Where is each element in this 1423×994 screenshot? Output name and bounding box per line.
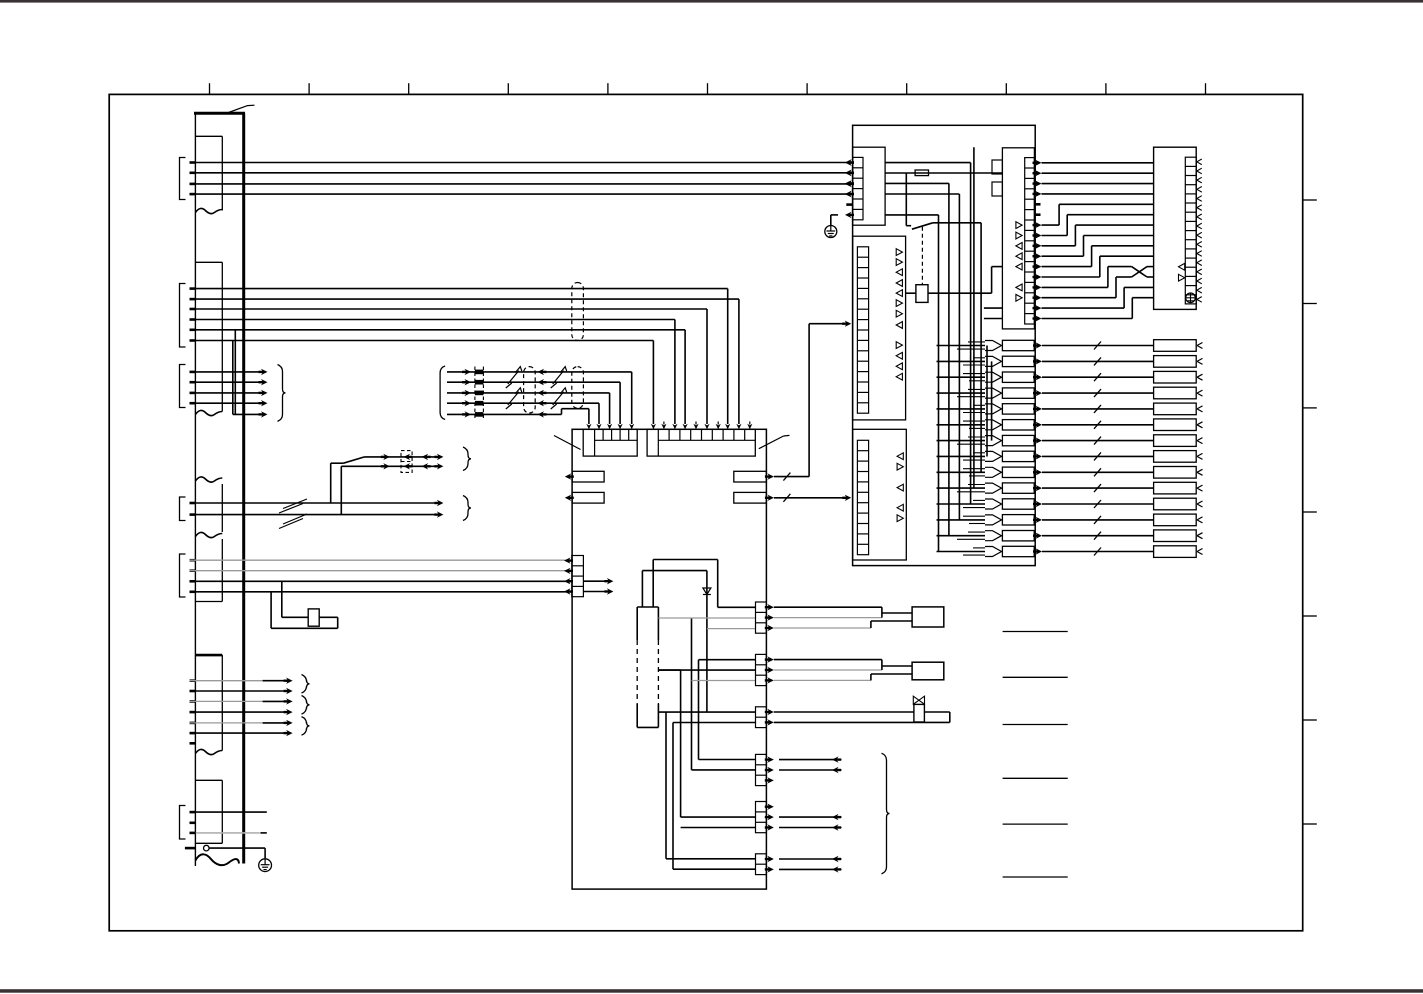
drawing frame border xyxy=(109,94,1303,930)
switch pair inline arrows xyxy=(381,454,431,470)
IC feed verticals xyxy=(642,560,653,608)
cable marker ellipse group2 xyxy=(572,283,584,341)
motor M1 plug xyxy=(912,607,944,627)
group7 pin stubs xyxy=(190,812,197,833)
PSU wire r3 xyxy=(885,182,949,184)
group6 wires xyxy=(190,678,293,737)
left bar section 1 box xyxy=(195,136,222,210)
PSU output left tabs xyxy=(992,160,1002,196)
group1 wires to power connector xyxy=(190,159,855,197)
left harness bar leader xyxy=(229,105,255,112)
interior vertical vd xyxy=(691,618,693,770)
PSU input arrows xyxy=(845,159,854,218)
comb connector CN2b outline xyxy=(647,429,755,456)
left bar section 3 edge xyxy=(221,484,223,532)
bracket group4 xyxy=(180,497,186,521)
PCB left port box2 xyxy=(572,492,604,503)
PSU input connector box xyxy=(853,147,886,225)
thermistor body xyxy=(308,609,319,626)
interior vertical v718 xyxy=(717,560,719,608)
left bar break wave 3 xyxy=(195,477,222,482)
comb CN2b teeth xyxy=(658,429,755,456)
PSU output direction marks xyxy=(1016,222,1022,302)
load connector box xyxy=(1154,147,1197,309)
PCB left port box1 xyxy=(572,471,604,482)
interior vertical va xyxy=(665,712,667,859)
PCB output stack 3 xyxy=(756,707,767,728)
load plugs right column xyxy=(1154,340,1203,558)
PSU IC box lower xyxy=(853,429,907,560)
PSU internal bus wires xyxy=(939,147,992,551)
frame ground wire xyxy=(209,848,265,858)
fuse F1 wire xyxy=(885,170,1002,176)
group2 pin stubs xyxy=(190,289,197,341)
interior vertical ve xyxy=(699,660,756,760)
closing bracket sensors xyxy=(882,753,890,874)
PSU wire r1 xyxy=(885,162,971,164)
group2 branch pair down xyxy=(233,330,236,415)
main PCB outline xyxy=(572,429,766,889)
group3 wires segment A xyxy=(190,369,268,418)
left bar section 5 box xyxy=(195,655,222,750)
frame right scale ticks xyxy=(1303,200,1317,824)
left bar break wave 2 xyxy=(195,410,222,415)
left bar section 4 box xyxy=(195,539,222,602)
sensor feedback wires xyxy=(779,756,842,872)
closing bracket switch pair xyxy=(463,447,471,471)
interlock switch pair xyxy=(331,454,444,515)
PCB output stack 5 xyxy=(756,802,767,833)
relay coil K1 xyxy=(906,267,1003,303)
left bar section 6 box xyxy=(195,780,222,843)
group5 pin stubs xyxy=(190,560,197,592)
comb CN2a teeth xyxy=(595,429,638,456)
inline connector dashed group3 xyxy=(475,367,484,420)
group3 wires segment B to comb xyxy=(447,372,634,429)
closing brackets group6 xyxy=(302,675,310,736)
bracket group3 near bar xyxy=(180,365,186,408)
thermistor branch wires xyxy=(271,581,338,628)
PSU wire r6 xyxy=(885,214,938,216)
PSU output connector box xyxy=(1002,148,1034,329)
interior vertical vc xyxy=(658,670,680,817)
bracket group5 xyxy=(180,554,186,597)
left bar section 2 box xyxy=(195,262,222,411)
mid connector feed wires xyxy=(984,308,1003,318)
solenoid SL1 body xyxy=(914,704,925,722)
PSU IC box lower cells xyxy=(857,440,868,554)
wire PCB to PSU upper xyxy=(765,321,851,481)
PSU ground wire xyxy=(831,215,838,225)
group4 long wires xyxy=(190,499,444,529)
driver output wires xyxy=(1033,342,1154,556)
PSU to load harness wires xyxy=(1042,163,1154,319)
frame ground terminal circle xyxy=(204,845,210,851)
IC block dashed xyxy=(637,607,658,727)
inline connector dashed group4 xyxy=(401,451,412,473)
protective earth symbol PSU xyxy=(825,226,837,238)
comb leader left xyxy=(554,436,581,450)
motor M2 wires xyxy=(774,660,912,681)
load connector pin marks xyxy=(1197,159,1202,302)
comb leader right xyxy=(759,435,790,448)
PSU block outline xyxy=(853,125,1036,565)
left harness bar outline xyxy=(194,113,245,866)
motor M2 plug xyxy=(912,662,944,680)
group5 black wires xyxy=(190,581,572,592)
PCB output stack 6 xyxy=(756,854,767,875)
wire PCB to PSU lower xyxy=(765,494,851,502)
interior vertical vb xyxy=(672,723,674,870)
left bar break wave 1 xyxy=(195,208,222,213)
comb unused pin stubs xyxy=(661,422,752,430)
PCB input stack CN5 xyxy=(572,556,584,597)
component label rules xyxy=(1003,632,1068,878)
load connector direction marks xyxy=(1179,263,1185,281)
twist marks group3 set1 xyxy=(506,367,522,409)
relay link dashed xyxy=(921,227,923,285)
group7 wire 1 xyxy=(190,811,267,813)
page top rule xyxy=(0,0,1423,3)
cable marker ellipse group3 a xyxy=(524,367,536,413)
group7 wire 3 xyxy=(196,832,267,834)
page bottom rule xyxy=(0,989,1423,993)
bracket group1 xyxy=(180,158,186,200)
PSU IC box lower direction marks xyxy=(897,453,903,522)
cable marker ellipse group3 b xyxy=(572,367,584,409)
PCB output stack 2 xyxy=(756,654,767,685)
stack feeder wires xyxy=(658,607,755,869)
PCB right port box1 xyxy=(734,471,767,482)
closing bracket group3 A xyxy=(278,365,286,422)
PSU output connector cells xyxy=(1025,158,1035,324)
PCB output stack arrows xyxy=(765,604,774,873)
PCB output stack 1 xyxy=(756,602,767,633)
diode D1 xyxy=(703,571,711,713)
left bar break wave 5 xyxy=(195,749,222,754)
frame top scale ticks xyxy=(210,83,1206,94)
load connector earth mark xyxy=(1186,293,1196,303)
group6 pin stubs xyxy=(190,681,197,744)
group5 gray wires xyxy=(190,560,572,571)
PCB left port box1 arrow xyxy=(565,473,572,479)
relay switch SW1 xyxy=(906,173,981,229)
PSU input connector cells xyxy=(853,157,863,219)
driver output connectors xyxy=(1002,340,1034,556)
group2 wires to comb CN2 xyxy=(190,289,742,430)
solenoid SL1 valve mark xyxy=(913,696,924,704)
PSU IC box upper xyxy=(853,236,906,420)
left bar break wave 4 xyxy=(195,532,222,537)
PCB right port box2 xyxy=(734,492,767,503)
PSU output connector arrows xyxy=(1033,160,1042,322)
motor M1 wires xyxy=(774,607,912,628)
group4 pin stubs xyxy=(190,503,197,515)
protective earth symbol left xyxy=(259,859,272,872)
group3 left arrows mid xyxy=(538,369,547,418)
interior top rails xyxy=(642,560,717,571)
bracket group7 xyxy=(180,806,186,840)
solenoid SL1 wires xyxy=(774,712,950,722)
twist marks group3 set2 xyxy=(551,367,567,409)
opening bracket group3 B xyxy=(440,366,445,420)
load connector cells xyxy=(1185,157,1196,304)
PCB left port box2 arrow xyxy=(565,495,572,501)
PSU IC box upper cells xyxy=(857,247,868,413)
bracket group2 xyxy=(180,284,186,348)
comb connector CN2a outline xyxy=(583,429,637,456)
PCB output stack 4 xyxy=(756,754,767,785)
frame ground stub xyxy=(185,847,196,850)
driver output merge chevrons xyxy=(937,341,1002,557)
group1 pin stubs xyxy=(190,163,197,195)
PSU wire r4 xyxy=(885,193,959,195)
group3 arrows into inline connector xyxy=(462,369,471,418)
left bar bottom break wave xyxy=(195,854,239,865)
group3 pin stubs xyxy=(190,372,197,403)
PCB input stack arrows xyxy=(564,557,613,594)
PSU IC box upper direction marks xyxy=(896,249,902,380)
closing bracket group4 xyxy=(463,496,471,521)
